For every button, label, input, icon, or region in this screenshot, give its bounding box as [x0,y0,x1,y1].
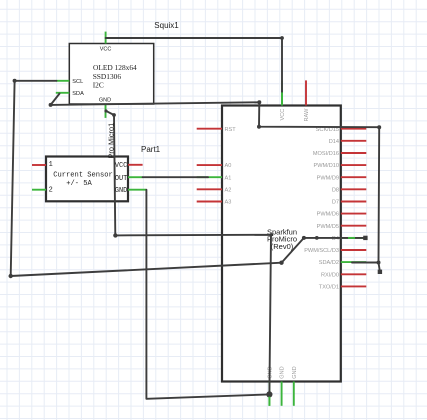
junction bend VCC wire corner [280,36,284,40]
svg-text:PWM/D10: PWM/D10 [314,163,340,169]
svg-text:D8: D8 [332,187,339,193]
svg-text:PWM/D5: PWM/D5 [317,224,339,230]
pin PWM/SCL/D3 (Pro Micro1 right) [304,248,366,254]
svg-text:RST: RST [225,127,237,133]
pin A1 (Pro Micro1 left) [197,175,232,181]
OLED display Squix1 [69,44,153,105]
pin GND1 (Pro Micro1 bottom) [268,366,274,405]
junction wire end dot below SDA/D2 [378,270,382,274]
svg-text:VCC: VCC [280,109,286,121]
pin PWM/D5 (Pro Micro1 right) [317,224,367,230]
svg-text:PWM/D6: PWM/D6 [317,212,339,218]
svg-text:OUT: OUT [115,175,127,183]
junction SDA wire bend below OLED [49,103,53,107]
svg-text:D4: D4 [332,236,339,242]
junction GND wire corner left [113,233,117,237]
pin GND3 (Pro Micro1 bottom) [292,366,298,405]
junction GND wire corner right [269,233,272,236]
pin D8 (Pro Micro1 right) [332,187,366,193]
pin RST (Pro Micro1 left) [197,127,237,133]
svg-text:(Rev0): (Rev0) [271,242,294,251]
svg-text:A0: A0 [225,163,232,169]
wire net GND: sensor GND down to ProMicro GND junction [146,190,269,399]
wire net SCL: OLED SCL to D4 (long left loop) [11,81,366,276]
svg-text:RXI/D0: RXI/D0 [321,272,339,278]
wire stub SDA/D2 pin to vertical [352,262,379,264]
pin VCC (Pro Micro1 top) [280,80,286,120]
junction SCL wire corner bottom-left [9,274,13,278]
svg-text:MOSI/D16: MOSI/D16 [313,151,339,157]
pin D7 (Pro Micro1 right) [332,200,366,206]
svg-text:2: 2 [49,187,53,195]
svg-text:A2: A2 [225,187,232,193]
svg-text:Part1: Part1 [141,145,161,154]
svg-text:GND: GND [99,97,111,103]
svg-text:SCL: SCL [72,79,83,85]
svg-text:A3: A3 [225,200,232,206]
svg-text:D14: D14 [329,139,339,145]
svg-text:PWM/SCL/D3: PWM/SCL/D3 [304,248,339,254]
svg-text:+/- 5A: +/- 5A [66,180,92,188]
pin GND2 (Pro Micro1 bottom) [280,366,286,405]
pin A2 (Pro Micro1 left) [197,187,232,193]
svg-text:1: 1 [49,161,53,169]
pin OUT (sensor right) [128,176,143,178]
svg-text:Squix1: Squix1 [154,21,179,30]
pin PWM/D10 (Pro Micro1 right) [314,163,367,169]
pin VCC (sensor right) [128,164,143,166]
svg-text:A1: A1 [225,175,232,181]
current sensor Part1 [46,157,128,202]
wire overlap green visible on VCC pin [281,92,283,105]
svg-text:VCC: VCC [100,46,112,52]
svg-text:Current Sensor: Current Sensor [53,171,113,179]
svg-text:SDA/D2: SDA/D2 [319,260,339,266]
junction SDA wire corner right of OLED [257,100,261,104]
svg-text:VCC: VCC [115,162,127,170]
microcontroller Pro Micro1 (SparkFun Pro Micro) [222,106,341,382]
svg-text:GND: GND [115,187,127,195]
junction SDA/D2 tee [377,261,381,265]
pin PWM/D6 (Pro Micro1 right) [317,212,367,218]
svg-text:Pro Micro1: Pro Micro1 [107,123,116,159]
junction wire end at pin D4 [363,236,367,240]
svg-text:PWM/D9: PWM/D9 [317,175,339,181]
junction SDA wire corner top right [377,125,381,129]
pin D14 (Pro Micro1 right) [329,139,367,145]
junction SDA wire corner inside ProMicro [257,125,261,129]
wire overlap green visible on D4 pin [348,237,355,239]
junction SCL wire bend [279,261,283,265]
pin A0 (Pro Micro1 left) [197,163,232,169]
svg-text:RAW: RAW [304,108,310,122]
pin D4 (Pro Micro1 right) [332,236,366,242]
pin 1 (sensor left) [32,164,46,166]
pin SCK/D15 (Pro Micro1 right) [316,127,367,133]
wire net OUT: sensor OUT to A1 [143,176,208,178]
junction GND wire jog [112,113,116,117]
svg-text:D7: D7 [332,200,339,206]
pin SDA (OLED left) [56,92,70,94]
wire net GND: OLED GND down through sensor to ProMicro GND [106,111,271,395]
svg-text:TXO/D1: TXO/D1 [319,285,339,291]
pin GND (OLED bottom) [105,104,107,118]
pin GND (sensor right) [128,189,146,191]
junction SCL wire bend upper [302,236,306,240]
pin RXI/D0 (Pro Micro1 right) [321,272,366,278]
pin MOSI/D16 (Pro Micro1 right) [313,151,366,157]
pin TXO/D1 (Pro Micro1 right) [319,285,367,291]
svg-text:I2C: I2C [93,80,104,89]
junction SCL wire corner top-left [13,79,17,83]
svg-text:SDA: SDA [72,91,84,97]
pin VCC (OLED top) [105,32,107,44]
pin RAW (Pro Micro1 top) [304,80,310,121]
pin 2 (sensor left) [32,189,46,191]
pin A3 (Pro Micro1 left) [197,200,232,206]
svg-text:GND: GND [280,366,286,378]
junction GND wire start [104,109,107,112]
wire net SDA: OLED SDA to SDA/D2 [51,94,380,272]
junction SCL wire mid bendpoint [315,236,319,240]
wire net VCC: OLED VCC to Pro Micro VCC [106,38,282,92]
wire overlap green below GND junction [268,397,270,406]
pin SCL (OLED left) [56,80,69,82]
junction GND tee at ProMicro GND pin [266,391,272,397]
svg-text:GND: GND [292,366,298,378]
pin SDA/D2 (Pro Micro1 right) [319,260,367,266]
pin PWM/D9 (Pro Micro1 right) [317,175,367,181]
